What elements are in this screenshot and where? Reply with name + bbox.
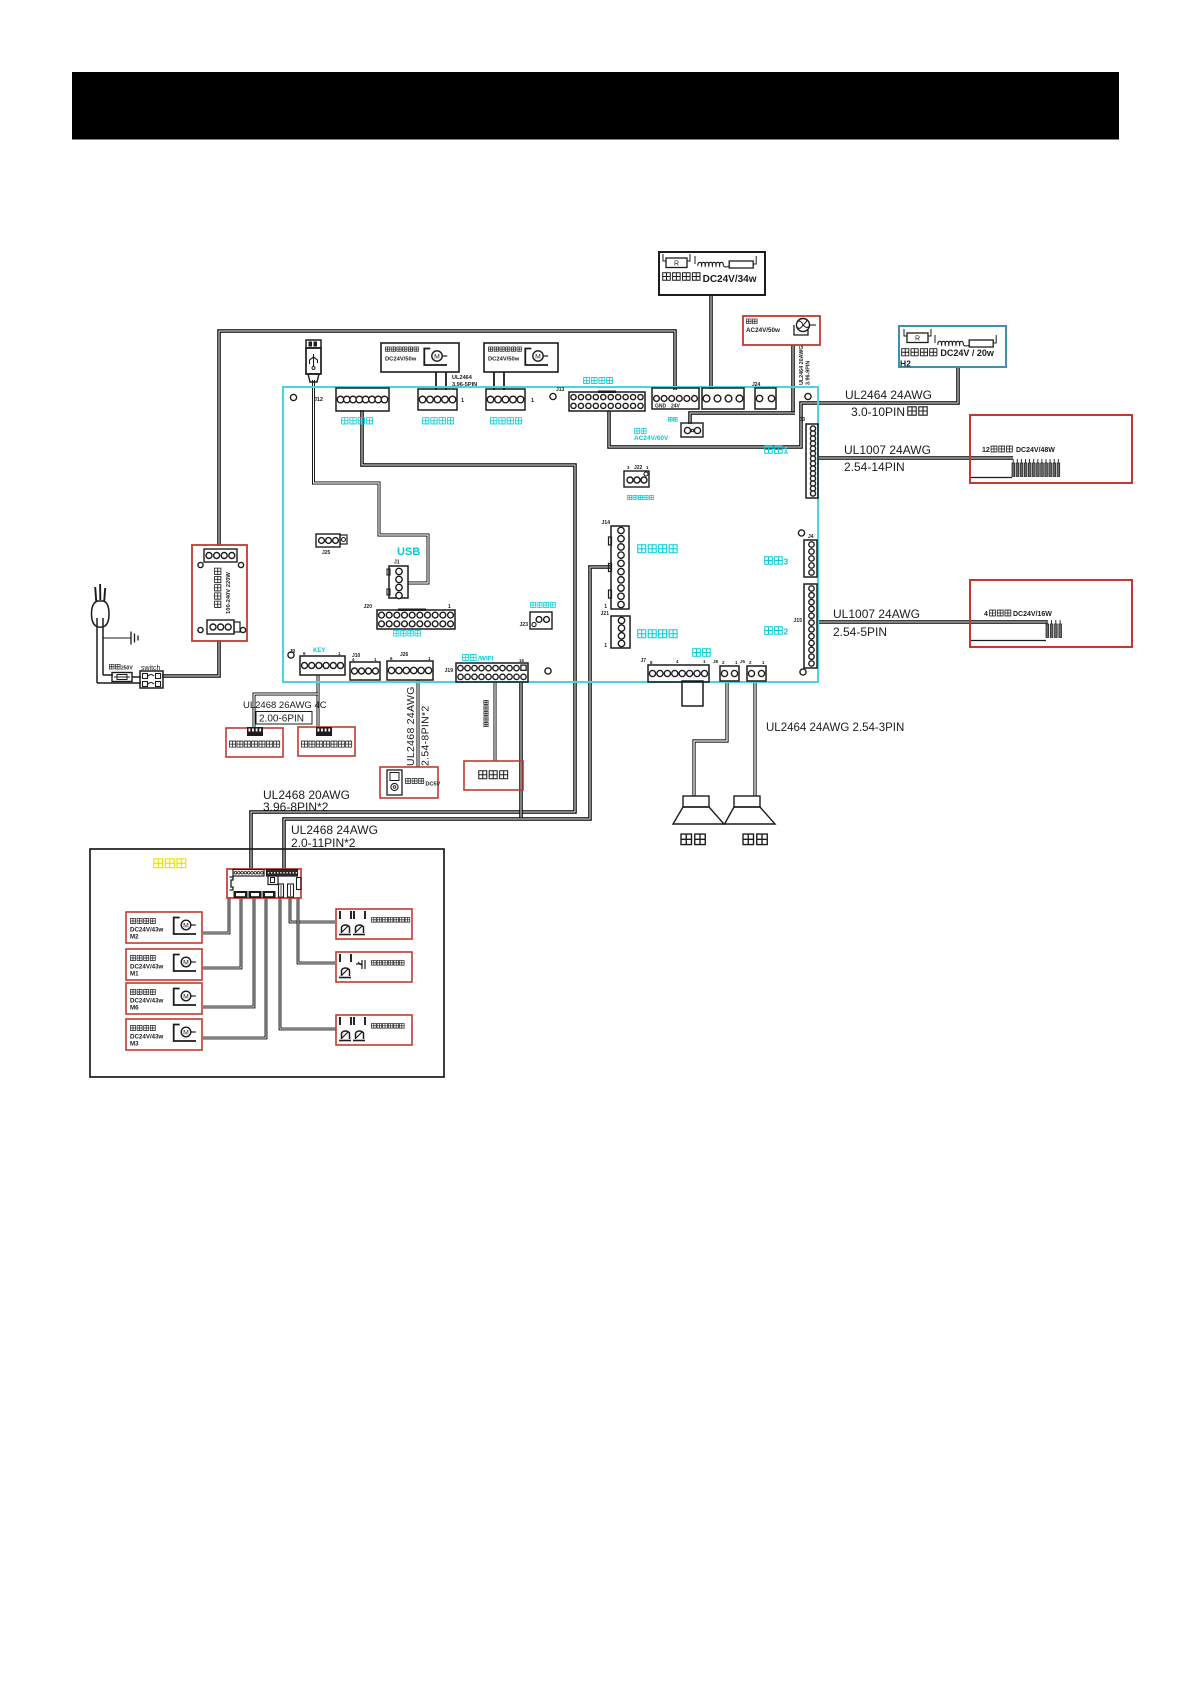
svg-text:DC5V: DC5V xyxy=(426,782,441,788)
svg-text:R: R xyxy=(915,336,920,343)
svg-text:J26: J26 xyxy=(400,652,409,658)
svg-text:UL2468 24AWG: UL2468 24AWG xyxy=(405,686,417,766)
svg-text:2.54-8PIN*2: 2.54-8PIN*2 xyxy=(420,705,432,766)
svg-text:DC24V/50w: DC24V/50w xyxy=(385,357,417,363)
svg-text:J12: J12 xyxy=(314,397,323,403)
svg-text:UL2468 24AWG: UL2468 24AWG xyxy=(291,823,378,837)
svg-text:DC24V/43w: DC24V/43w xyxy=(130,964,164,971)
svg-text:/WIFI: /WIFI xyxy=(478,656,494,663)
svg-text:DC24V/50w: DC24V/50w xyxy=(488,357,520,363)
svg-text:M: M xyxy=(434,353,440,360)
svg-text:2.00-6PIN: 2.00-6PIN xyxy=(259,714,304,725)
svg-text:M3: M3 xyxy=(130,1041,139,1048)
svg-text:DC24V/43w: DC24V/43w xyxy=(130,998,164,1005)
svg-text:1: 1 xyxy=(461,398,464,404)
svg-text:J24: J24 xyxy=(752,382,761,388)
svg-text:J21: J21 xyxy=(601,611,610,617)
svg-text:J25: J25 xyxy=(322,550,331,556)
svg-text:R: R xyxy=(674,261,679,268)
svg-text:1: 1 xyxy=(531,398,534,404)
svg-text:J3: J3 xyxy=(799,417,805,423)
svg-text:3: 3 xyxy=(784,557,789,567)
svg-text:DC24V/34w: DC24V/34w xyxy=(703,274,757,285)
svg-text:250V: 250V xyxy=(121,666,133,672)
svg-text:100-240V 220W: 100-240V 220W xyxy=(226,572,232,614)
svg-text:J14: J14 xyxy=(602,520,611,526)
svg-text:3.96-5PIN: 3.96-5PIN xyxy=(452,382,477,388)
svg-text:AC24V/50w: AC24V/50w xyxy=(746,327,780,334)
svg-text:3.96-9PIN: 3.96-9PIN xyxy=(806,361,812,385)
svg-text:UL2464 20AWG: UL2464 20AWG xyxy=(799,345,805,385)
svg-text:J7: J7 xyxy=(640,658,646,664)
svg-text:1: 1 xyxy=(604,643,607,649)
svg-text:AC24V/60V: AC24V/60V xyxy=(634,435,669,442)
svg-text:1: 1 xyxy=(604,604,607,610)
svg-text:24V: 24V xyxy=(671,404,681,410)
svg-text:DC24V/48W: DC24V/48W xyxy=(1016,447,1055,454)
svg-text:1: 1 xyxy=(448,604,451,610)
svg-text:3.0-10PIN: 3.0-10PIN xyxy=(851,405,905,419)
svg-text:M6: M6 xyxy=(130,1005,139,1012)
svg-text:M: M xyxy=(183,959,189,966)
svg-text:DC24V/43w: DC24V/43w xyxy=(130,927,164,934)
svg-text:12: 12 xyxy=(982,447,990,454)
svg-text:J5: J5 xyxy=(740,659,746,664)
svg-text:M: M xyxy=(535,353,541,360)
svg-text:2.0-11PIN*2: 2.0-11PIN*2 xyxy=(291,836,356,850)
svg-text:UL2468 26AWG 4C: UL2468 26AWG 4C xyxy=(243,700,327,711)
svg-text:GND: GND xyxy=(655,404,667,410)
svg-text:2.54-14PIN: 2.54-14PIN xyxy=(844,460,905,474)
svg-text:2: 2 xyxy=(784,627,789,637)
svg-text:M2: M2 xyxy=(130,934,139,941)
svg-text:DC24V/16W: DC24V/16W xyxy=(1013,611,1052,618)
svg-text:J19: J19 xyxy=(445,668,454,674)
svg-text:J22: J22 xyxy=(634,465,643,471)
svg-text:UL2464 24AWG 2.54-3PIN: UL2464 24AWG 2.54-3PIN xyxy=(766,722,904,734)
svg-text:J4: J4 xyxy=(808,534,814,540)
svg-text:DC24V / 20w: DC24V / 20w xyxy=(940,348,995,358)
svg-text:J1: J1 xyxy=(394,560,400,566)
svg-text:UL1007 24AWG: UL1007 24AWG xyxy=(844,443,931,457)
svg-text:UL2464 24AWG: UL2464 24AWG xyxy=(845,388,932,402)
svg-text:M: M xyxy=(183,1029,189,1036)
svg-text:J23: J23 xyxy=(520,622,529,628)
svg-text:16: 16 xyxy=(519,658,525,663)
svg-text:USB: USB xyxy=(397,546,420,558)
svg-text:1: 1 xyxy=(784,446,789,456)
svg-text:UL1007 24AWG: UL1007 24AWG xyxy=(833,607,920,621)
svg-text:M1: M1 xyxy=(130,971,139,978)
svg-text:J8: J8 xyxy=(713,659,719,664)
svg-text:DC24V/43w: DC24V/43w xyxy=(130,1034,164,1041)
svg-text:J15: J15 xyxy=(794,618,803,624)
svg-text:UL2464: UL2464 xyxy=(452,375,473,381)
svg-text:4: 4 xyxy=(984,611,988,618)
svg-text:J20: J20 xyxy=(364,604,373,610)
svg-text:J13: J13 xyxy=(556,387,565,393)
svg-text:M: M xyxy=(183,993,189,1000)
svg-text:M: M xyxy=(183,922,189,929)
svg-text:H2: H2 xyxy=(900,359,911,369)
svg-text:J9: J9 xyxy=(289,649,295,655)
svg-text:3.96-8PIN*2: 3.96-8PIN*2 xyxy=(263,800,329,814)
svg-text:2.54-5PIN: 2.54-5PIN xyxy=(833,625,887,639)
svg-text:KEY: KEY xyxy=(313,648,325,654)
